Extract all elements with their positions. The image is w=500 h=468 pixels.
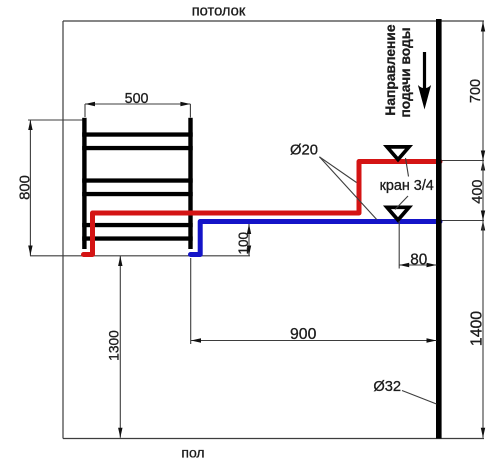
towel rail rung 6 xyxy=(82,236,193,240)
svg-text:Ø20: Ø20 xyxy=(290,143,318,159)
wall line left xyxy=(62,21,64,439)
svg-text:кран 3/4: кран 3/4 xyxy=(380,178,434,194)
return pipe (blue) xyxy=(191,222,441,255)
svg-text:900: 900 xyxy=(290,326,317,343)
svg-text:потолок: потолок xyxy=(192,4,246,20)
svg-text:Направление: Направление xyxy=(383,24,398,115)
leader кран to valve 1 xyxy=(406,158,409,177)
extension line at return pipe level xyxy=(442,220,484,222)
svg-text:1400: 1400 xyxy=(469,311,486,346)
label Ø32 xyxy=(373,379,401,395)
label потолок xyxy=(192,4,246,20)
ceiling line xyxy=(63,20,484,22)
leader Ø20 to blue pipe xyxy=(319,157,376,220)
label кран 3/4 xyxy=(380,178,434,194)
svg-text:100: 100 xyxy=(236,232,251,255)
leader кран to valve 2 xyxy=(395,196,408,210)
dimension 1400 xyxy=(469,221,486,438)
towel rail rung 2 xyxy=(82,146,193,150)
dimension 80 xyxy=(399,221,436,269)
svg-text:800: 800 xyxy=(18,175,34,200)
extension line at hot pipe level xyxy=(442,160,484,162)
dimension 700 xyxy=(468,22,485,161)
towel rail rung 4 xyxy=(82,192,193,196)
dimension 100 xyxy=(236,224,251,256)
direction of flow arrow xyxy=(418,52,431,110)
svg-text:80: 80 xyxy=(410,251,427,268)
leader Ø20 to red pipe xyxy=(319,157,356,183)
floor line xyxy=(63,438,484,440)
valve 2 on return pipe xyxy=(387,207,409,220)
dimension 400 xyxy=(470,161,486,221)
svg-text:1300: 1300 xyxy=(107,330,122,361)
valve 1 on hot pipe xyxy=(387,147,409,160)
label Направление xyxy=(383,24,398,115)
label подачи воды xyxy=(398,27,413,117)
towel rail left tube xyxy=(82,118,86,249)
svg-text:500: 500 xyxy=(125,91,149,107)
hot supply pipe (red) xyxy=(84,162,441,255)
towel rail rung 3 xyxy=(82,178,193,182)
svg-text:подачи воды: подачи воды xyxy=(398,27,413,117)
dimension 500 xyxy=(85,91,190,118)
dimension 800 xyxy=(18,120,34,256)
svg-text:пол: пол xyxy=(181,445,204,461)
extension line at pipe stub bottom (y=255.8) xyxy=(30,255,250,257)
riser pipe xyxy=(436,19,442,439)
svg-text:Ø32: Ø32 xyxy=(373,379,401,395)
label пол xyxy=(181,445,204,461)
label Ø20 xyxy=(290,143,318,159)
dimension 1300 xyxy=(107,256,123,438)
extension line at towel rail top (y=120) xyxy=(28,119,86,121)
dimension 900 xyxy=(191,258,437,344)
towel rail rung 5 xyxy=(82,223,193,227)
svg-text:700: 700 xyxy=(468,79,484,103)
towel rail rung 1 xyxy=(82,132,193,136)
leader Ø32 to riser xyxy=(402,391,437,405)
svg-text:400: 400 xyxy=(470,179,486,203)
towel rail right tube xyxy=(188,118,192,249)
